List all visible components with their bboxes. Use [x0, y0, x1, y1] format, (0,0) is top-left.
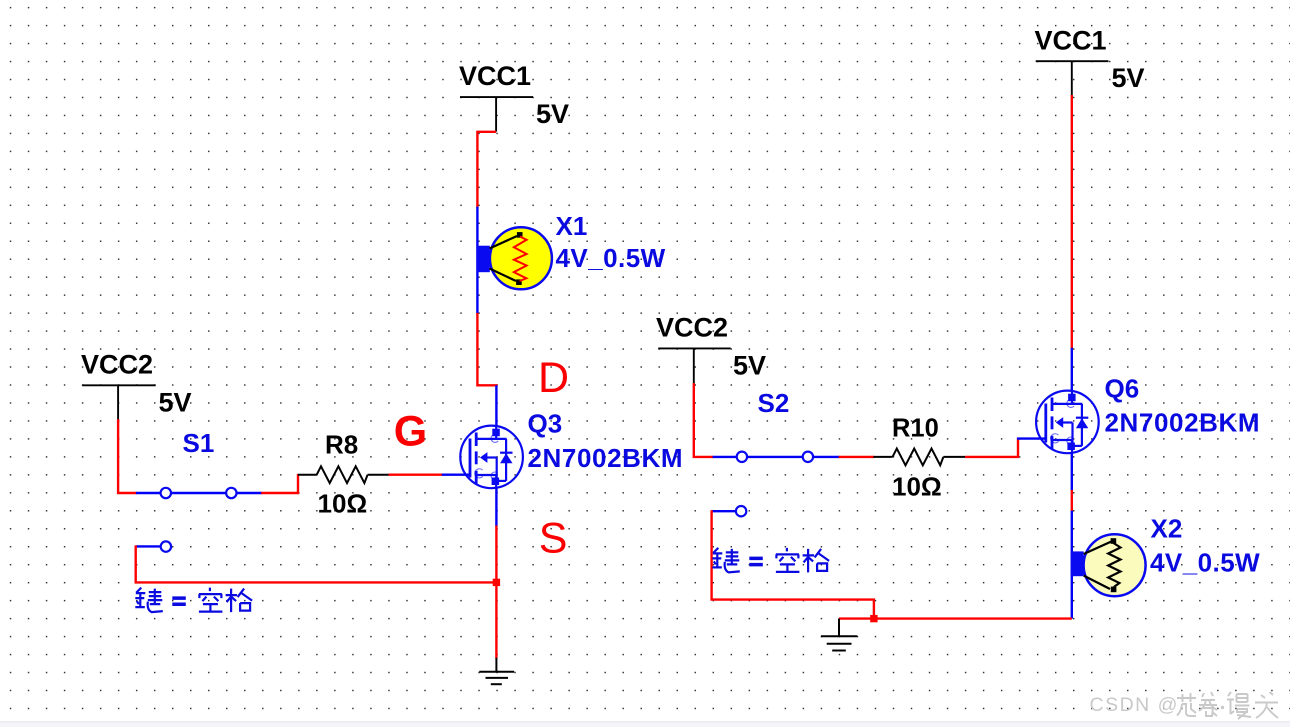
svg-text:VCC2: VCC2 [656, 313, 728, 343]
wire red: junction to ground [495, 582, 497, 658]
svg-text:5V: 5V [159, 388, 192, 418]
wire red: short segment above X2 [1071, 490, 1073, 512]
svg-text:Q3: Q3 [528, 409, 563, 439]
wire red: VCC2 stem to switch S1 [118, 419, 137, 493]
svg-text:X2: X2 [1151, 514, 1183, 544]
ground GND2 [821, 619, 857, 651]
svg-text:G: G [394, 408, 427, 456]
wire red: S2 throw down to ground rail [712, 510, 874, 618]
svg-text:CSDN @: CSDN @ [1090, 694, 1179, 716]
wire blue: Q6 source down [1071, 453, 1073, 492]
svg-text:2N7002BKM: 2N7002BKM [528, 443, 684, 473]
power VCC2 (left) symbol [82, 385, 156, 420]
svg-text:VCC1: VCC1 [459, 61, 531, 91]
svg-text:VCC2: VCC2 [81, 350, 153, 380]
power VCC1 (left) symbol [460, 97, 533, 132]
resistor R8 [298, 466, 389, 483]
key legend "键 = 空格" (left, drawn as paths) [135, 588, 252, 613]
transistor Q6 [1036, 391, 1099, 454]
bottom strip [0, 722, 1290, 727]
svg-text:R8: R8 [325, 429, 358, 459]
wire red: VCC1 to lamp X1 [477, 132, 496, 208]
svg-text:S1: S1 [183, 428, 215, 458]
wire red: Q3 source to junction [495, 526, 497, 583]
watermark CSDN [1090, 692, 1279, 719]
junction dot (right) [870, 615, 877, 622]
wire red: lamp X1 to jog [477, 313, 497, 385]
svg-text:Q6: Q6 [1105, 374, 1140, 404]
wire red: S2 to R10 [839, 456, 875, 458]
lamp X2 [1071, 534, 1146, 596]
svg-text:4V_0.5W: 4V_0.5W [1150, 548, 1260, 578]
svg-text:VCC1: VCC1 [1035, 26, 1107, 56]
switch S2 [713, 452, 840, 462]
ground GND1 [479, 658, 514, 685]
key legend "键 = 空格" (right, drawn as paths) [712, 548, 829, 573]
wire blue: gate pin Q6 [1017, 437, 1046, 439]
wire blue: lamp X1 pin segment [476, 207, 478, 314]
switch S1 alternate throw stub [136, 541, 171, 551]
switch S2 alternate throw stub [712, 506, 747, 516]
wire blue: Q6 drain pin [1071, 348, 1073, 392]
lamp X1 [477, 227, 552, 289]
svg-text:10Ω: 10Ω [892, 471, 942, 501]
wire red: VCC2 stem to switch S2 [694, 383, 714, 457]
resistor R10 [873, 449, 965, 466]
svg-text:2N7002BKM: 2N7002BKM [1105, 408, 1261, 438]
wire red: R8 to Q3 gate [389, 474, 443, 476]
svg-text:5V: 5V [536, 99, 569, 129]
wire red: R10 to gate jog [965, 438, 1018, 457]
switch S1 [136, 488, 262, 498]
svg-text:10Ω: 10Ω [318, 488, 368, 518]
svg-text:4V_0.5W: 4V_0.5W [556, 243, 666, 273]
power VCC1 (right) symbol [1036, 61, 1109, 96]
svg-text:5V: 5V [733, 350, 766, 380]
wire red: S1 throw down to source node [136, 545, 497, 582]
wire blue: jog to Q3 drain [495, 385, 497, 426]
junction dot (left) [493, 579, 500, 586]
transistor Q3 [460, 426, 523, 489]
wire red: S1 to R8 jog [261, 474, 298, 493]
wire red: VCC1 down to Q6 [1071, 95, 1073, 349]
svg-text:R10: R10 [892, 415, 939, 443]
svg-text:S2: S2 [758, 388, 790, 418]
svg-text:X1: X1 [556, 211, 588, 241]
wire red: ground rail to lamp X2 [839, 617, 1072, 619]
svg-text:5V: 5V [1112, 63, 1145, 93]
power VCC2 (right) symbol [658, 348, 731, 384]
wire blue: gate pin Q3 [442, 474, 470, 476]
wire blue: lamp X2 pin segment [1071, 511, 1073, 619]
svg-text:S: S [539, 515, 568, 563]
svg-text:D: D [538, 354, 569, 402]
wire blue: Q3 source down [495, 488, 497, 527]
